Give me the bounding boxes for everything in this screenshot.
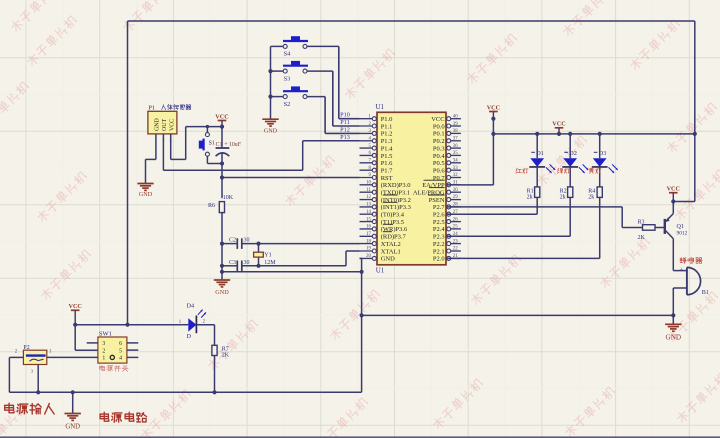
svg-text:3: 3 <box>102 341 105 347</box>
svg-text:P12: P12 <box>340 126 350 133</box>
svg-text:16: 16 <box>366 225 371 230</box>
svg-text:SW1: SW1 <box>99 330 112 337</box>
svg-text:5: 5 <box>119 348 122 354</box>
svg-text:32: 32 <box>453 173 458 178</box>
svg-text:P2: P2 <box>23 345 29 351</box>
svg-text:U1: U1 <box>376 103 385 111</box>
svg-text:VCC: VCC <box>68 303 81 310</box>
svg-text:P0.3: P0.3 <box>433 145 445 152</box>
svg-text:38: 38 <box>453 129 458 134</box>
svg-text:22: 22 <box>453 247 458 252</box>
svg-text:+: + <box>679 267 683 274</box>
svg-text:+: + <box>224 141 228 148</box>
svg-text:C2: C2 <box>229 238 236 244</box>
svg-text:9012: 9012 <box>677 230 688 236</box>
svg-text:P0.0: P0.0 <box>433 123 445 130</box>
svg-text:19: 19 <box>366 247 371 252</box>
svg-text:33: 33 <box>453 166 458 171</box>
svg-text:OUT: OUT <box>162 118 168 131</box>
svg-text:2k: 2k <box>560 194 566 200</box>
svg-text:P0.5: P0.5 <box>433 160 445 167</box>
svg-text:P2.5: P2.5 <box>433 219 445 226</box>
svg-text:20: 20 <box>366 254 371 259</box>
svg-text:P1.3: P1.3 <box>381 138 393 145</box>
svg-text:30: 30 <box>244 260 250 266</box>
svg-text:18: 18 <box>366 239 371 244</box>
svg-text:P2.1: P2.1 <box>433 248 445 255</box>
svg-text:(RXD)P3.0: (RXD)P3.0 <box>381 182 411 189</box>
svg-text:15: 15 <box>366 217 371 222</box>
svg-text:P0.2: P0.2 <box>433 138 445 145</box>
svg-text:13: 13 <box>366 203 371 208</box>
svg-text:P11: P11 <box>340 119 349 126</box>
svg-text:(T0)P3.4: (T0)P3.4 <box>381 212 405 219</box>
svg-text:17: 17 <box>366 232 371 237</box>
svg-text:1: 1 <box>102 356 105 362</box>
svg-text:P1.1: P1.1 <box>381 123 393 130</box>
svg-text:36: 36 <box>453 144 458 149</box>
svg-text:40: 40 <box>453 114 458 119</box>
svg-text:P2.3: P2.3 <box>433 234 445 241</box>
svg-text:P10: P10 <box>340 112 350 119</box>
svg-text:25: 25 <box>453 225 458 230</box>
svg-text:30: 30 <box>244 238 250 244</box>
svg-text:VCC: VCC <box>431 116 444 123</box>
svg-text:2k: 2k <box>588 194 594 200</box>
svg-text:4: 4 <box>119 356 122 362</box>
svg-text:RST: RST <box>381 175 393 182</box>
svg-text:P2.0: P2.0 <box>433 256 445 263</box>
svg-text:P2.4: P2.4 <box>433 226 445 233</box>
svg-text:14: 14 <box>366 210 371 215</box>
svg-text:S2: S2 <box>284 101 291 108</box>
svg-text:P2.6: P2.6 <box>433 212 445 219</box>
svg-text:34: 34 <box>453 159 458 164</box>
svg-text:P2.2: P2.2 <box>433 241 445 248</box>
svg-text:GND: GND <box>264 127 278 134</box>
svg-text:11: 11 <box>366 188 371 193</box>
svg-text:P0.4: P0.4 <box>433 153 445 160</box>
svg-text:XTAL1: XTAL1 <box>381 248 401 255</box>
svg-text:D1: D1 <box>536 150 544 157</box>
svg-text:P1: P1 <box>148 104 155 111</box>
svg-text:29: 29 <box>453 195 458 200</box>
svg-text:2K: 2K <box>638 235 646 241</box>
svg-text:D4: D4 <box>187 302 195 309</box>
svg-text:C3: C3 <box>229 260 236 266</box>
svg-text:12M: 12M <box>264 260 276 266</box>
svg-text:6: 6 <box>119 341 122 347</box>
svg-text:B1: B1 <box>702 289 709 296</box>
svg-text:39: 39 <box>453 122 458 127</box>
svg-text:VCC: VCC <box>667 186 680 193</box>
svg-text:GND: GND <box>215 289 229 296</box>
svg-text:2: 2 <box>102 348 105 354</box>
svg-text:S3: S3 <box>284 75 291 82</box>
svg-text:D2: D2 <box>569 150 577 157</box>
svg-text:2k: 2k <box>527 194 533 200</box>
svg-text:(T1)P3.5: (T1)P3.5 <box>381 219 404 226</box>
svg-text:37: 37 <box>453 136 458 141</box>
svg-text:U1: U1 <box>376 267 385 275</box>
svg-text:VCC: VCC <box>215 113 228 120</box>
svg-text:(INT1)P3.3: (INT1)P3.3 <box>381 204 411 211</box>
svg-text:Y1: Y1 <box>264 252 271 258</box>
svg-text:VCC: VCC <box>487 104 500 111</box>
svg-text:C1: C1 <box>216 142 223 148</box>
svg-text:EA/VPP: EA/VPP <box>422 182 445 189</box>
svg-text:D3: D3 <box>599 150 607 157</box>
svg-text:35: 35 <box>453 151 458 156</box>
svg-text:23: 23 <box>453 239 458 244</box>
svg-text:D: D <box>187 333 192 340</box>
svg-text:P1.7: P1.7 <box>381 168 393 175</box>
svg-text:2K: 2K <box>222 352 230 358</box>
svg-text:VCC: VCC <box>169 119 175 131</box>
svg-text:P1.2: P1.2 <box>381 131 393 138</box>
svg-text:VCC: VCC <box>552 121 565 128</box>
svg-text:10uF: 10uF <box>229 142 242 148</box>
svg-text:12: 12 <box>366 195 371 200</box>
svg-text:(RD)P3.7: (RD)P3.7 <box>381 234 407 241</box>
svg-text:GND: GND <box>381 256 395 263</box>
svg-text:P1.5: P1.5 <box>381 153 393 160</box>
svg-text:P1.6: P1.6 <box>381 160 393 167</box>
svg-text:(INT0)P3.2: (INT0)P3.2 <box>381 197 411 204</box>
svg-text:S4: S4 <box>284 51 292 58</box>
svg-text:R6: R6 <box>208 203 215 209</box>
svg-text:GND: GND <box>666 334 682 342</box>
svg-text:P2.7: P2.7 <box>433 204 445 211</box>
svg-text:P1.0: P1.0 <box>381 116 393 123</box>
svg-text:GND: GND <box>65 423 80 430</box>
svg-text:10: 10 <box>366 181 371 186</box>
svg-text:30: 30 <box>453 188 458 193</box>
svg-text:26: 26 <box>453 217 458 222</box>
svg-text:P0.6: P0.6 <box>433 168 445 175</box>
svg-text:P0.1: P0.1 <box>433 131 445 138</box>
svg-text:P0.7: P0.7 <box>433 175 445 182</box>
svg-text:XTAL2: XTAL2 <box>381 241 401 248</box>
svg-text:PSEN: PSEN <box>429 197 445 204</box>
svg-text:R3: R3 <box>638 219 645 225</box>
svg-text:10K: 10K <box>223 195 234 201</box>
svg-text:P13: P13 <box>340 134 350 141</box>
svg-text:GND: GND <box>155 117 161 131</box>
svg-text:Q1: Q1 <box>677 223 685 230</box>
svg-text:P1.4: P1.4 <box>381 145 393 152</box>
svg-text:GND: GND <box>139 191 153 198</box>
svg-text:S1: S1 <box>209 141 215 147</box>
